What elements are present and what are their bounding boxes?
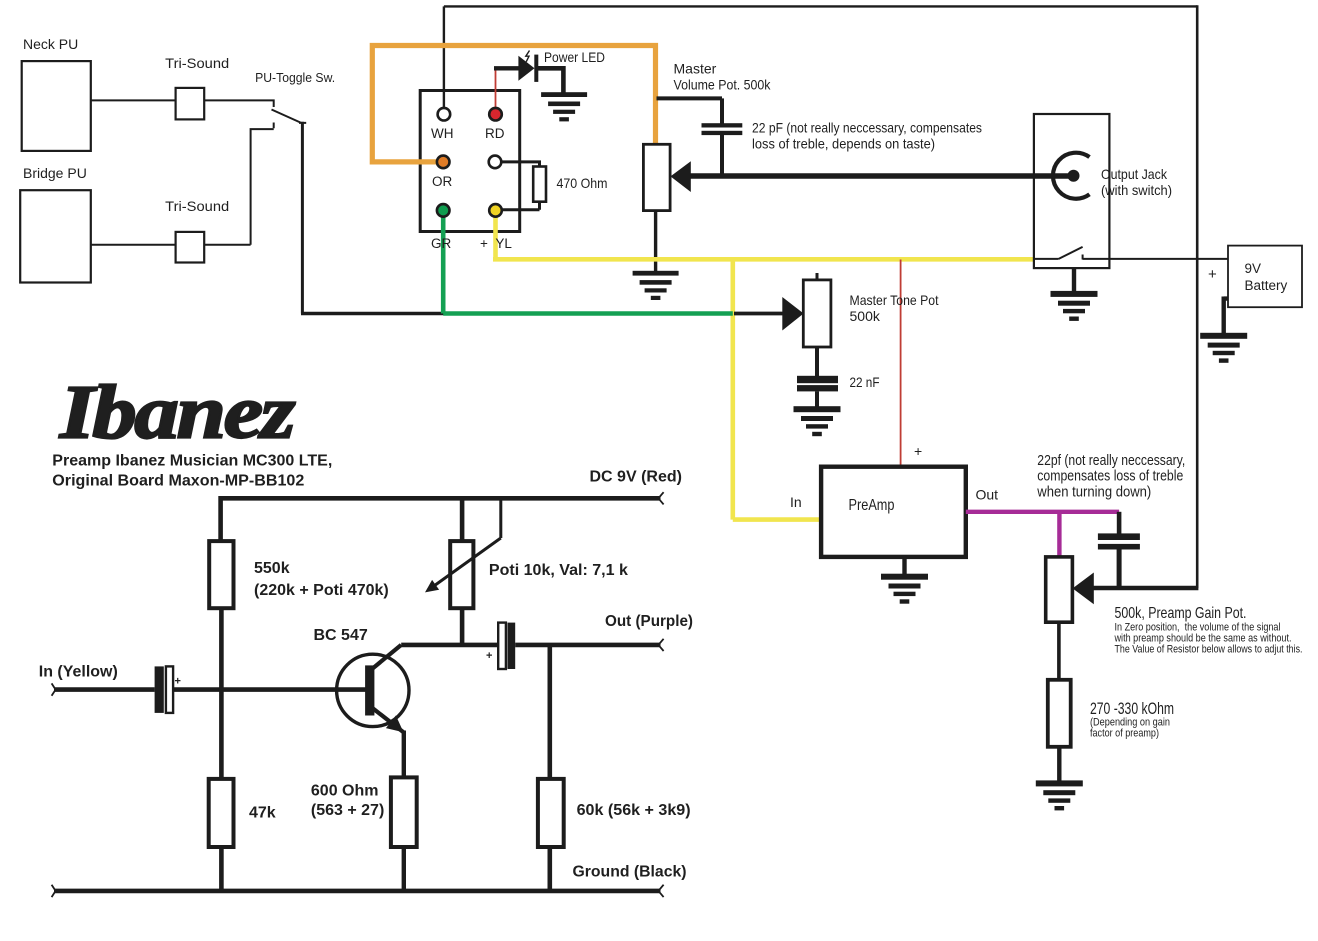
capacitor 22 pF [702, 123, 743, 135]
wire green from GR pin to tone pot junction [443, 212, 733, 314]
wire volume pot top jog to 22pF [657, 98, 723, 123]
svg-text:600 Ohm: 600 Ohm [311, 782, 379, 799]
wire 600 ohm to ground rail [402, 847, 406, 891]
node connector block [420, 91, 520, 232]
wire red battery plus to preamp plus [900, 260, 902, 467]
svg-text:+: + [175, 676, 181, 688]
svg-text:Battery: Battery [1245, 278, 1288, 293]
wire tone pot feed [734, 312, 784, 316]
svg-text:Preamp Ibanez Musician MC300 L: Preamp Ibanez Musician MC300 LTE, [52, 453, 332, 470]
wire input line [54, 687, 155, 692]
ground LED [541, 92, 587, 121]
svg-text:+: + [1208, 266, 1217, 283]
node output jack box [1034, 114, 1110, 268]
svg-text:+: + [914, 443, 922, 459]
output jack contact arc [1053, 153, 1090, 199]
svg-text:(220k + Poti 470k): (220k + Poti 470k) [254, 582, 389, 599]
svg-text:loss of treble, depends on tas: loss of treble, depends on taste) [752, 136, 935, 152]
wire tone pot bottom to 22nF [815, 347, 819, 377]
svg-text:47k: 47k [249, 805, 276, 822]
wire 22pf bottom to gain wiper line [1117, 550, 1122, 589]
potentiometer Poti 10k [450, 541, 473, 608]
resistor 47k [209, 779, 234, 847]
wire gain pot wiper line [1093, 586, 1198, 591]
svg-text:550k: 550k [254, 560, 290, 577]
output jack tip dot [1068, 170, 1080, 182]
svg-text:22 pF (not really neccessary,: 22 pF (not really neccessary, compensate… [752, 120, 982, 136]
wire tri-sound to switch [204, 100, 274, 107]
svg-text:270 -330 kOhm: 270 -330 kOhm [1090, 700, 1174, 718]
ground 22nF [794, 406, 841, 436]
wire poti 10k drop [460, 496, 465, 541]
pin RD [489, 108, 502, 121]
svg-text:In: In [790, 494, 802, 510]
wire neck pu to tri-sound [91, 99, 176, 101]
svg-text:compensates loss of treble: compensates loss of treble [1037, 469, 1183, 485]
svg-text:Power LED: Power LED [544, 49, 605, 65]
ground battery [1200, 333, 1247, 363]
potentiometer Master Tone 500k [803, 280, 831, 347]
wire LED cathode to ground [538, 66, 563, 93]
wire gain pot bottom [1057, 622, 1061, 680]
svg-text:9V: 9V [1245, 261, 1262, 276]
wire bridge branch to switch lower contact [204, 129, 274, 245]
svg-text:+: + [486, 650, 492, 662]
svg-text:WH: WH [431, 126, 454, 141]
wire 47k to ground rail [219, 847, 224, 891]
svg-text:when turning down): when turning down) [1036, 485, 1151, 501]
ground volume pot [633, 271, 679, 300]
resistor 600 Ohm [391, 777, 417, 847]
wire LED anode feed [494, 66, 519, 70]
svg-text:500k, Preamp Gain Pot.: 500k, Preamp Gain Pot. [1115, 605, 1247, 622]
svg-text:PreAmp: PreAmp [849, 497, 895, 514]
tone pot wiper arrow [782, 297, 803, 331]
wire yellow branch down to preamp in [733, 259, 822, 519]
wire emitter column [402, 731, 406, 778]
resistor 470 Ohm [533, 167, 546, 202]
capacitor 22 nF [797, 376, 838, 392]
switch inside output jack [1034, 247, 1083, 260]
node PreAmp box [821, 467, 966, 557]
wire purple preamp out [966, 512, 1119, 557]
wire preamp ground stem [902, 557, 906, 574]
resistor 550k [209, 541, 233, 608]
battery BT1 9V box [1228, 246, 1302, 308]
wire battery minus to ground [1224, 297, 1228, 334]
svg-text:Out (Purple): Out (Purple) [605, 613, 693, 630]
rail end tick [658, 492, 663, 504]
svg-text:+ YL: + YL [480, 236, 512, 251]
wire 60k to ground rail [547, 847, 552, 891]
pin WH [438, 108, 451, 121]
svg-text:Original Board Maxon-MP-BB102: Original Board Maxon-MP-BB102 [52, 473, 304, 490]
svg-text:Poti 10k, Val: 7,1 k: Poti 10k, Val: 7,1 k [489, 562, 628, 579]
svg-text:Neck PU: Neck PU [23, 36, 78, 52]
node Neck PU [22, 61, 91, 151]
gain pot wiper arrow [1073, 573, 1094, 605]
wire 470 ohm top lead [502, 162, 540, 167]
wire red from RD pin to LED [495, 68, 497, 108]
wire switch output down [301, 122, 304, 314]
wire base column [219, 608, 224, 779]
wire 22nF to ground [815, 391, 819, 406]
volume pot wiper arrow [671, 161, 691, 192]
wire collector line [401, 643, 498, 648]
wire volume pot bottom to ground [654, 211, 657, 271]
svg-text:Master Tone Pot: Master Tone Pot [850, 292, 939, 308]
ground rail left tick [52, 885, 56, 897]
tone pot top stub [816, 273, 819, 280]
svg-text:Ibanez: Ibanez [59, 371, 296, 455]
node Tri-Sound 2 [176, 232, 205, 263]
svg-text:Volume Pot. 500k: Volume Pot. 500k [674, 77, 772, 93]
svg-text:(with switch): (with switch) [1101, 182, 1172, 198]
wire output line [515, 643, 660, 648]
pin YL [489, 204, 502, 217]
pin GR [437, 204, 450, 217]
capacitor output electrolytic [498, 623, 515, 669]
svg-text:factor of preamp): factor of preamp) [1090, 728, 1159, 740]
wire yellow from YL pin to output jack [493, 212, 1033, 259]
wire ground rail [54, 889, 661, 894]
wire poti bottom to collector line [460, 608, 465, 645]
wire 470 ohm bottom lead to YL pin [502, 202, 540, 210]
svg-text:Out: Out [976, 487, 999, 503]
svg-text:RD: RD [485, 126, 505, 141]
wire 60k column [547, 645, 552, 779]
transistor Q1 BC547 [337, 645, 409, 733]
wire switch output to green junction [301, 312, 445, 316]
svg-text:470 Ohm: 470 Ohm [557, 175, 608, 191]
wire 22pF bottom to wiper line [720, 135, 724, 176]
svg-text:In (Yellow): In (Yellow) [39, 663, 118, 680]
poti 10k wiper diagonal arrow [425, 496, 501, 592]
svg-text:OR: OR [432, 174, 453, 189]
ground gain resistor [1036, 780, 1083, 810]
svg-text:Tri-Sound: Tri-Sound [165, 55, 229, 71]
wire volume wiper to output jack [690, 173, 1071, 178]
wire resistor to ground [1057, 747, 1061, 781]
wire WH pin up to top bus [443, 6, 445, 108]
svg-text:Ground (Black): Ground (Black) [573, 863, 687, 880]
svg-text:22pf (not really neccessary,: 22pf (not really neccessary, [1037, 453, 1185, 469]
svg-text:60k (56k + 3k9): 60k (56k + 3k9) [577, 802, 691, 819]
wire rail drop to 550k [218, 496, 223, 541]
capacitor 22pf gain [1098, 533, 1140, 549]
ground output jack [1051, 291, 1098, 321]
node Tri-Sound 1 [176, 88, 205, 120]
wire jack switch to battery [1083, 258, 1228, 260]
svg-text:GR: GR [431, 236, 452, 251]
wire orange from OR pin up and to volume pot [372, 46, 655, 162]
potentiometer Preamp Gain 500k [1046, 557, 1073, 622]
svg-text:DC 9V (Red): DC 9V (Red) [590, 468, 682, 485]
switch PU-Toggle lever [272, 110, 307, 129]
LED lightning mark [526, 51, 530, 62]
svg-text:Output Jack: Output Jack [1101, 166, 1168, 182]
wire bridge pu to tri-sound 2 [91, 244, 176, 246]
svg-text:PU-Toggle Sw.: PU-Toggle Sw. [255, 70, 335, 85]
resistor 270-330 kOhm [1048, 680, 1071, 747]
wire purple end down to 22pf cap [1117, 512, 1122, 534]
pin white [489, 156, 502, 169]
wire jack sleeve to ground [1072, 268, 1076, 291]
wire DC 9V rail [221, 496, 661, 501]
potentiometer Master Volume 500k [643, 144, 670, 210]
svg-text:Master: Master [674, 61, 717, 77]
node Bridge PU [20, 190, 91, 282]
resistor 60k [538, 779, 564, 847]
ground preamp [881, 574, 928, 604]
svg-text:BC 547: BC 547 [314, 627, 368, 644]
svg-text:(563 + 27): (563 + 27) [311, 802, 384, 819]
input line tick [52, 683, 56, 695]
svg-text:500k: 500k [850, 308, 881, 324]
diode D1 Power LED [518, 55, 538, 82]
capacitor input electrolytic [155, 666, 173, 713]
svg-text:Tri-Sound: Tri-Sound [165, 198, 229, 214]
wire input cap to base [173, 687, 367, 692]
output line end tick [658, 639, 663, 651]
wire right bus down [1196, 5, 1199, 588]
svg-text:22 nF: 22 nF [850, 374, 880, 390]
svg-text:Bridge PU: Bridge PU [23, 165, 87, 181]
wire top bus from WH to right side [444, 5, 1197, 7]
ground rail right tick [658, 885, 663, 897]
pin OR [437, 156, 450, 169]
svg-text:The Value of Resistor below al: The Value of Resistor below allows to ad… [1115, 643, 1303, 655]
